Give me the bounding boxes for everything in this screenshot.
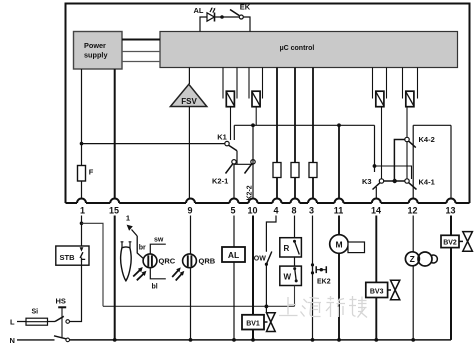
- bus wire y=125 right span: [413, 124, 451, 126]
- svg-text:Z: Z: [410, 254, 415, 264]
- coil K1 output wire: [230, 107, 232, 140]
- wire OW down: [265, 264, 267, 306]
- wire Z to N: [412, 266, 414, 340]
- svg-text:10: 10: [247, 206, 257, 216]
- wire terminal 14 to BV3: [375, 216, 377, 283]
- node dot OW/BV1: [265, 305, 269, 309]
- node dot on terminal1 line: [80, 142, 84, 146]
- svg-text:QRC: QRC: [159, 256, 176, 265]
- svg-text:W: W: [284, 272, 292, 281]
- wire terminal 3 to EK2: [312, 216, 314, 265]
- wire K2-1 to terminal 5: [233, 164, 235, 199]
- wire terminal 15 vertical inside: [114, 69, 116, 199]
- node dot contact rail: [393, 179, 397, 183]
- contact K2-2: [251, 160, 255, 164]
- stub to K1 throw: [233, 125, 235, 140]
- valve BV2 box: [441, 235, 459, 247]
- wire terminal 9 down: [190, 216, 192, 340]
- svg-text:8: 8: [291, 206, 296, 216]
- wire terminal 11 to M: [338, 216, 340, 235]
- svg-text:FSV: FSV: [181, 97, 197, 106]
- reset button EK2: [311, 263, 314, 266]
- node dot terminal 11 feed: [337, 123, 341, 127]
- svg-text:HS: HS: [56, 297, 66, 306]
- svg-text:QRB: QRB: [199, 256, 216, 265]
- wire R to W: [294, 257, 296, 266]
- wire terminal 11 inside: [338, 125, 340, 199]
- light arrows to QRB: [172, 270, 182, 281]
- relay coil K2: [252, 91, 260, 107]
- thermostat W box: [280, 266, 302, 285]
- resistor terminal 4 line: [276, 68, 278, 200]
- wire STB to HS: [70, 261, 82, 322]
- svg-text:K2-1: K2-1: [212, 177, 228, 186]
- oil nozzle: [121, 247, 132, 281]
- wire terminal 14 stub: [375, 187, 377, 199]
- pump Z: [405, 252, 419, 266]
- coil K2 output wire: [255, 107, 257, 126]
- svg-text:M: M: [335, 240, 342, 250]
- relay coil K1 wires: [223, 68, 237, 99]
- svg-text:N: N: [10, 336, 15, 345]
- svg-text:BV3: BV3: [370, 289, 384, 296]
- svg-text:K3: K3: [362, 177, 372, 186]
- svg-text:9: 9: [187, 206, 192, 216]
- relay coil K3 wires: [373, 68, 387, 99]
- terminal numbers: [80, 206, 456, 216]
- node dot STB feed: [80, 222, 84, 226]
- node N/AL junction: [232, 338, 236, 342]
- switch HS pole N: [54, 336, 66, 339]
- svg-text:K4-2: K4-2: [419, 135, 435, 144]
- node N/BV3 junction: [374, 338, 378, 342]
- thermostat R box: [280, 238, 302, 257]
- coil K4 output wire: [406, 107, 408, 179]
- svg-text:5: 5: [230, 206, 235, 216]
- svg-text:AL: AL: [228, 250, 239, 260]
- node N/BV1 junction: [251, 338, 255, 342]
- bus wire y=125 left span: [234, 124, 374, 126]
- svg-text:Power: Power: [84, 41, 106, 50]
- svg-text:14: 14: [371, 206, 381, 216]
- svg-text:sw: sw: [154, 236, 164, 243]
- svg-text:br: br: [139, 244, 146, 251]
- wire terminal 8 to R: [294, 216, 296, 238]
- resistor terminal 3 line: [312, 68, 314, 200]
- svg-text:EK2: EK2: [317, 279, 331, 286]
- valve BV1 box: [242, 315, 264, 330]
- wire terminal 12 to Z: [412, 216, 414, 253]
- svg-text:K1: K1: [217, 133, 227, 142]
- resistor terminal 8 line: [294, 68, 296, 200]
- motor M: [330, 235, 349, 254]
- terminal strip bottom edge with bumps: [66, 199, 470, 204]
- svg-text:15: 15: [109, 206, 119, 216]
- power supply box: [74, 32, 123, 70]
- svg-text:BV1: BV1: [246, 321, 260, 328]
- node dot K3 throw: [373, 164, 377, 168]
- svg-text:K4-1: K4-1: [419, 178, 435, 187]
- wire K2-2 to terminal 10: [252, 125, 254, 199]
- contact K2-1: [232, 160, 236, 164]
- wire BV2 to N end: [450, 248, 452, 340]
- LED arrows: [210, 8, 215, 12]
- relay coil K3: [376, 91, 384, 107]
- stub from bus to K3 throw: [374, 125, 376, 172]
- valve BV3 box: [366, 282, 388, 297]
- L wire: [17, 321, 55, 323]
- svg-text:1: 1: [126, 214, 130, 223]
- wire to thermostat chain: [82, 223, 104, 306]
- STB box: [56, 246, 89, 265]
- svg-text:supply: supply: [84, 51, 108, 60]
- thermostat bus wire: [103, 305, 295, 307]
- wires power supply to µC: [122, 39, 160, 41]
- alarm AL box: [222, 247, 245, 262]
- node: junction dot: [220, 15, 224, 19]
- µC control box: [160, 32, 458, 68]
- node N/M junction: [337, 338, 341, 342]
- wire terminal 13 to BV2: [450, 216, 452, 236]
- wire F bus to K1: [82, 143, 225, 145]
- wire terminal 5 down: [233, 216, 235, 340]
- svg-text:13: 13: [445, 206, 455, 216]
- wire terminal 13 inside: [450, 125, 452, 199]
- node dot K2-2 feed: [251, 123, 255, 127]
- svg-text:L: L: [10, 318, 15, 327]
- svg-text:1: 1: [80, 206, 85, 216]
- wire terminal 15 to N: [114, 216, 116, 340]
- node N/QRB junction: [189, 338, 193, 342]
- LED diode AL: [207, 13, 214, 21]
- svg-text:EK: EK: [240, 3, 251, 12]
- light arrows to QRC: [133, 269, 144, 280]
- photocell QRB: [183, 254, 197, 268]
- coil K3 output wire: [381, 107, 383, 179]
- wire M to N: [338, 253, 340, 340]
- AL LED leg wire: [200, 17, 207, 32]
- FSV triangle: [188, 68, 190, 85]
- N bus wire: [70, 339, 452, 341]
- QRC brown wire: [137, 236, 143, 258]
- wire to K4-1 throw: [375, 166, 412, 179]
- wire terminal 12 inside: [412, 125, 414, 199]
- svg-text:R: R: [284, 244, 290, 253]
- relay coil K1: [226, 91, 234, 107]
- QRC blue wire bl: [150, 268, 166, 279]
- svg-text:µC control: µC control: [280, 45, 315, 52]
- relay coil K4: [406, 91, 414, 107]
- valve BV3 symbol: [391, 280, 400, 300]
- svg-text:12: 12: [407, 206, 417, 216]
- wire W down to bus: [294, 286, 296, 307]
- N wire left: [17, 339, 55, 341]
- STB contact: [80, 247, 84, 251]
- svg-text:BV2: BV2: [443, 240, 457, 247]
- svg-text:3: 3: [309, 206, 314, 216]
- contact K4-2: [405, 137, 409, 141]
- valve BV2 symbol: [463, 232, 473, 252]
- watermark: [279, 296, 367, 318]
- contact K4-1: [405, 179, 409, 183]
- node N/Z junction: [411, 338, 415, 342]
- wire BV3 to N: [375, 298, 377, 340]
- svg-text:Si: Si: [32, 309, 39, 316]
- svg-text:11: 11: [334, 206, 344, 216]
- link bar K2 contacts: [234, 163, 253, 165]
- wire terminal 1 down: [81, 216, 83, 248]
- wire LED to EK: [215, 16, 240, 18]
- valve BV1 stem: [265, 306, 267, 312]
- K4-2 throw wire to contact rail: [394, 140, 404, 182]
- wire EK to box: [243, 17, 250, 32]
- valve BV1 symbol: [267, 313, 276, 332]
- outer frame: [66, 4, 470, 204]
- switch HS pole L: [55, 316, 64, 321]
- svg-text:STB: STB: [60, 253, 76, 262]
- svg-text:4: 4: [273, 206, 278, 216]
- node N/terminal15 junction: [113, 338, 117, 342]
- wire terminal 4 to OW: [266, 216, 276, 252]
- photocell QRC: [143, 254, 157, 268]
- relay coil K4 wires: [403, 68, 418, 99]
- wire EK2 to N: [312, 273, 314, 340]
- wire FSV to terminal 9: [188, 107, 190, 200]
- QRC black wire sw: [150, 244, 166, 254]
- svg-text:OW: OW: [254, 256, 266, 263]
- svg-text:bl: bl: [152, 283, 158, 290]
- wire terminal 10 down: [252, 216, 254, 340]
- fuse F: [78, 166, 86, 182]
- svg-text:AL: AL: [194, 6, 204, 15]
- node N/EK2 junction: [311, 338, 315, 342]
- contact row rail: [384, 180, 405, 182]
- wire terminal 1 vertical inside: [81, 69, 83, 199]
- relay coil K2 wires: [249, 68, 263, 99]
- svg-text:F: F: [89, 168, 94, 177]
